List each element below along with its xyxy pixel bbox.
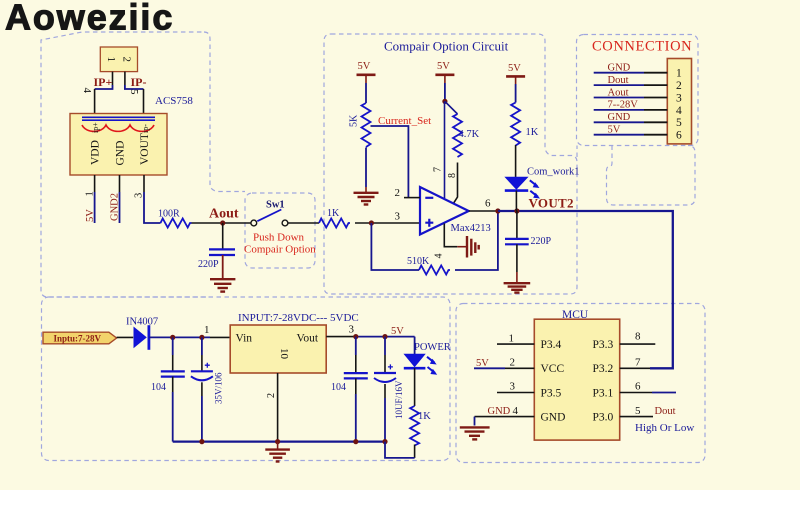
svg-text:5: 5 — [676, 117, 682, 129]
svg-text:4: 4 — [513, 405, 519, 417]
svg-text:1: 1 — [676, 68, 682, 80]
sensor primary bus bars — [82, 117, 155, 120]
node 10UF junction — [382, 334, 387, 339]
wire 5V pin down — [94, 192, 96, 223]
wire GND2 pin down — [119, 192, 121, 223]
LED POWER — [404, 354, 437, 375]
ground below pot — [354, 187, 379, 205]
node plus input junction — [369, 220, 374, 225]
wire conn GND — [594, 72, 644, 74]
svg-text:VDD: VDD — [90, 140, 102, 165]
connector J1 header block — [667, 59, 691, 144]
svg-text:CONNECTION: CONNECTION — [592, 39, 692, 55]
svg-text:VOUT2: VOUT2 — [529, 196, 574, 211]
wire conn stub 2 — [644, 84, 667, 86]
wire ground rail — [173, 441, 385, 443]
diode D1 IN4007 — [134, 325, 149, 350]
svg-text:35V/106: 35V/106 — [214, 372, 224, 404]
wire output stub — [469, 210, 498, 212]
svg-text:1K: 1K — [526, 127, 539, 138]
svg-text:6: 6 — [485, 198, 491, 210]
svg-text:1: 1 — [509, 333, 515, 345]
dashed box power supply section — [42, 297, 451, 461]
svg-text:Dout: Dout — [655, 406, 676, 417]
svg-text:5V: 5V — [608, 125, 621, 136]
wire switch to 1K — [288, 222, 319, 224]
wire IP+ into sensor — [94, 89, 96, 114]
wire conn GND2 — [594, 121, 644, 123]
wire 1K to LED — [515, 145, 517, 177]
svg-text:Compair Option: Compair Option — [244, 244, 316, 256]
wire IP- into sensor — [143, 89, 145, 114]
wire pin 4 to ground — [444, 224, 457, 247]
svg-text:5V: 5V — [391, 326, 404, 337]
ground below MCU pin4 — [460, 427, 490, 439]
pot wiper wire — [371, 126, 409, 198]
resistor 1K power LED — [410, 406, 419, 446]
svg-text:220P: 220P — [531, 236, 552, 247]
svg-text:Vout: Vout — [297, 333, 319, 345]
svg-text:6: 6 — [676, 130, 682, 142]
svg-text:1K: 1K — [418, 411, 431, 422]
wire MCU pin1 — [497, 343, 534, 345]
wire conn stub 4 — [644, 109, 667, 111]
node op-amp supply junction — [442, 99, 447, 104]
capacitor 220P first — [209, 249, 235, 255]
svg-text:IN4007: IN4007 — [126, 317, 158, 328]
node 104 output junction — [353, 334, 358, 339]
svg-text:Com_work1: Com_work1 — [527, 167, 580, 178]
wire regulator pin2 down — [277, 373, 279, 442]
svg-text:High Or Low: High Or Low — [635, 422, 694, 434]
dashed box compair option circuit — [324, 34, 577, 294]
wire feedback down and right — [371, 223, 419, 270]
wire MCU pin2 VCC — [474, 367, 505, 369]
svg-text:104: 104 — [331, 382, 346, 393]
capacitor C4 10UF/16V polarized — [374, 337, 396, 442]
svg-text:1: 1 — [204, 324, 210, 336]
wire MCU pin4 GND — [475, 416, 535, 418]
wire junction to 4.7K — [445, 101, 458, 114]
svg-text:3: 3 — [134, 193, 145, 198]
power 5V op-amp supply — [435, 61, 454, 83]
power 5V pot supply — [357, 61, 376, 83]
svg-text:Dout: Dout — [608, 75, 629, 86]
wire Vout stub — [326, 336, 356, 338]
capacitor C2 35V/106 polarized — [191, 337, 213, 441]
wire GND elbow down — [474, 417, 476, 426]
svg-text:P3.3: P3.3 — [593, 339, 614, 351]
svg-text:7: 7 — [635, 357, 641, 369]
node Aout junction — [220, 220, 225, 225]
svg-text:INPUT:7-28VDC--- 5VDC: INPUT:7-28VDC--- 5VDC — [238, 312, 359, 324]
wire 100R to switch — [192, 222, 252, 224]
wire minus input stub — [404, 197, 420, 199]
node output junction — [495, 208, 500, 213]
wire 220P to ground — [222, 255, 224, 279]
capacitor 220P second — [505, 239, 529, 244]
wire 5V rail to LED — [414, 337, 416, 355]
wire VOUT pin down to 100R — [144, 192, 161, 223]
svg-text:5V: 5V — [437, 61, 450, 72]
svg-text:3: 3 — [510, 381, 516, 393]
svg-text:GND: GND — [541, 412, 566, 424]
MCU U4 body — [534, 319, 619, 440]
resistor 1K comparator pull-up — [511, 103, 520, 146]
svg-text:Aout: Aout — [608, 87, 629, 98]
svg-text:6: 6 — [635, 381, 641, 393]
svg-text:P3.4: P3.4 — [541, 339, 562, 351]
svg-text:4: 4 — [434, 254, 445, 259]
svg-text:2: 2 — [395, 187, 401, 199]
node rail regulator junction — [275, 439, 280, 444]
svg-text:4: 4 — [81, 88, 93, 94]
wire sensor pin2 stub — [119, 175, 121, 192]
ground below 220P second — [504, 272, 531, 293]
dashed box connection — [577, 35, 699, 146]
port Inptu:7-28V flag — [43, 332, 117, 344]
svg-text:8: 8 — [635, 331, 641, 343]
resistor 1K comparator input — [319, 219, 350, 228]
wire conn stub 3 — [644, 97, 667, 99]
capacitor C3 104 output — [344, 337, 368, 442]
svg-text:Vin: Vin — [236, 333, 253, 345]
wire Aout down to 220P — [222, 223, 224, 249]
node 104 input junction — [170, 335, 175, 340]
svg-text:VOUT: VOUT — [139, 133, 151, 165]
wire 220P to ground — [516, 244, 518, 272]
LED Com_work1 — [505, 177, 540, 198]
wire LED to output net — [515, 191, 517, 211]
wire connector pin2 down — [124, 72, 126, 85]
wire 1K to op-amp plus input — [355, 222, 420, 224]
svg-text:IP+: IP+ — [94, 75, 113, 89]
power 5V LED supply — [506, 63, 525, 84]
node rail 104 junction — [353, 439, 358, 444]
wire conn stub 6 — [644, 134, 667, 136]
dashed box sensor right edge — [204, 32, 245, 192]
wire conn 5V — [594, 134, 644, 136]
svg-text:10UF/16V: 10UF/16V — [394, 380, 404, 419]
svg-text:P3.5: P3.5 — [541, 387, 562, 399]
wire conn Aout — [594, 97, 644, 99]
resistor 100R — [161, 219, 192, 228]
svg-text:2: 2 — [266, 393, 277, 398]
svg-text:IP-: IP- — [131, 75, 147, 89]
svg-text:4.7K: 4.7K — [459, 129, 480, 140]
svg-text:P3.0: P3.0 — [593, 412, 614, 424]
svg-text:Inptu:7-28V: Inptu:7-28V — [54, 334, 102, 344]
svg-text:Compair Option Circuit: Compair Option Circuit — [384, 39, 509, 54]
svg-text:510K: 510K — [407, 256, 430, 267]
resistor 4.7K — [453, 114, 462, 157]
svg-text:2: 2 — [121, 57, 133, 63]
svg-text:5V: 5V — [358, 61, 371, 72]
svg-text:GND: GND — [608, 112, 631, 123]
svg-text:ACS758: ACS758 — [155, 95, 193, 107]
wire pin 7 — [444, 101, 446, 198]
svg-text:5: 5 — [128, 89, 140, 95]
wire MCU pin5 — [620, 416, 653, 418]
wire sensor pin1 stub — [94, 175, 96, 192]
wire elbow to IP+ — [95, 85, 113, 89]
wire MCU pin8 — [620, 343, 656, 345]
svg-text:5V: 5V — [476, 358, 489, 369]
wire 5V rail right — [356, 336, 415, 338]
svg-text:104: 104 — [151, 382, 166, 393]
dashed box sensor section — [41, 32, 206, 297]
svg-text:10: 10 — [278, 348, 290, 360]
op-amp plus sign — [425, 219, 433, 227]
svg-text:GND: GND — [115, 141, 127, 166]
svg-text:5K: 5K — [349, 114, 360, 127]
regulator U3 body — [230, 325, 326, 373]
wire 5V to 1K — [515, 84, 517, 103]
svg-text:4: 4 — [676, 105, 682, 117]
switch Sw1 — [251, 210, 288, 226]
svg-text:2: 2 — [676, 80, 682, 92]
svg-text:3: 3 — [349, 324, 355, 336]
wire conn stub 5 — [644, 121, 667, 123]
wire 5V to pot — [365, 83, 367, 103]
svg-text:3: 3 — [395, 211, 401, 223]
wire 4.7K to pin 8 — [454, 163, 458, 203]
wire conn stub 1 — [644, 72, 667, 74]
svg-text:ip-: ip- — [141, 124, 150, 133]
svg-text:220P: 220P — [198, 259, 219, 270]
connector P1 2-pin box — [100, 47, 137, 72]
ground below regulator — [265, 442, 290, 462]
sensor U1 ACS758 body — [70, 114, 167, 176]
svg-text:2: 2 — [510, 357, 516, 369]
svg-text:5V: 5V — [508, 63, 521, 74]
wire MCU pin7 — [620, 367, 650, 369]
svg-text:GND: GND — [488, 406, 511, 417]
svg-text:GND: GND — [608, 63, 631, 74]
dashed box switch section — [245, 193, 315, 268]
wire sensor pin3 stub — [143, 175, 145, 192]
svg-text:P3.2: P3.2 — [593, 363, 614, 375]
wire conn 7-28V — [594, 109, 644, 111]
resistor 510K feedback — [419, 266, 450, 275]
svg-text:1K: 1K — [327, 208, 340, 219]
node rail 10UF junction — [382, 439, 387, 444]
svg-text:Max4213: Max4213 — [451, 223, 491, 234]
svg-text:8: 8 — [447, 173, 458, 178]
svg-text:7: 7 — [433, 167, 444, 172]
ground sideways op-amp pin4 — [457, 236, 478, 258]
svg-text:ip+: ip+ — [91, 122, 100, 133]
capacitor C1 104 input — [161, 337, 185, 441]
svg-text:5: 5 — [635, 405, 641, 417]
node 35V/106 junction — [199, 335, 204, 340]
svg-text:P3.1: P3.1 — [593, 387, 614, 399]
dashed connector stub — [576, 146, 578, 158]
wire stub into Vin — [210, 336, 230, 338]
op-amp U2 Max4213 triangle — [420, 187, 469, 235]
wire MCU pin6 — [620, 392, 652, 394]
sensor hall coil red wave — [82, 125, 154, 131]
svg-text:POWER: POWER — [414, 342, 451, 353]
svg-text:VCC: VCC — [541, 363, 565, 375]
svg-text:3: 3 — [676, 92, 682, 104]
wire pot bottom to ground — [365, 148, 367, 188]
wire LED to 1K — [414, 368, 416, 406]
svg-text:Sw1: Sw1 — [266, 200, 285, 211]
op-amp minus sign — [425, 197, 433, 199]
node LED junction — [514, 208, 519, 213]
svg-text:Push Down: Push Down — [253, 232, 305, 244]
wire 510K up to output — [455, 211, 498, 270]
wire elbow to IP- — [125, 85, 144, 89]
svg-text:7--28V: 7--28V — [608, 100, 639, 111]
wire 1K return to rail — [385, 442, 415, 458]
wire diode to regulator — [149, 336, 210, 338]
wire flag to diode — [117, 336, 134, 338]
wire connector pin1 down — [112, 72, 114, 85]
potentiometer 5K — [362, 103, 371, 147]
svg-text:1: 1 — [105, 57, 117, 63]
wire MCU pin3 — [497, 392, 534, 394]
wire output to 220P second — [516, 211, 518, 239]
dashed box mcu section — [456, 304, 705, 463]
wire 1K return stub — [414, 445, 416, 458]
node rail 35V junction — [199, 439, 204, 444]
wire VOUT2 long net — [498, 211, 673, 368]
wire 5V down to junction — [444, 83, 446, 101]
wire conn Dout — [594, 84, 644, 86]
dashed box connection extension — [607, 146, 696, 206]
svg-text:Current_Set: Current_Set — [378, 115, 431, 127]
ground below 220P first — [210, 279, 235, 291]
svg-text:Aout: Aout — [209, 207, 239, 222]
svg-text:100R: 100R — [158, 209, 180, 220]
